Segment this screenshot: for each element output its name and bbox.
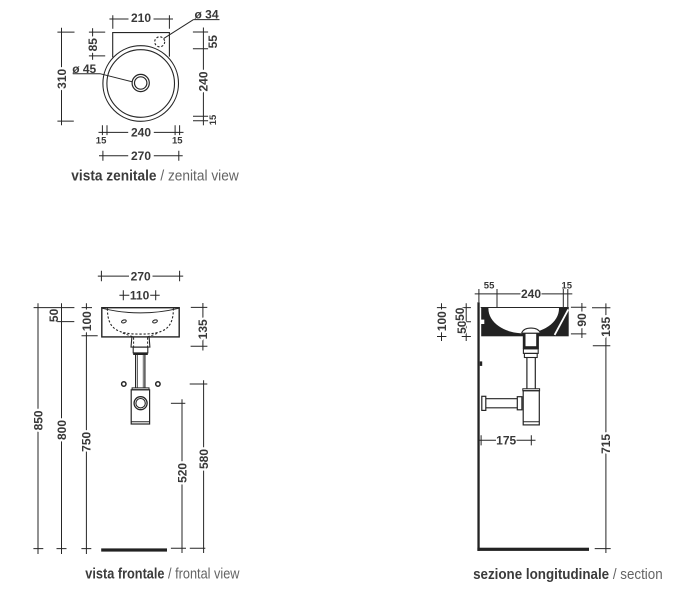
svg-text:50: 50 xyxy=(47,308,61,322)
svg-text:850: 850 xyxy=(31,410,45,430)
svg-text:sezione longitudinale / sectio: sezione longitudinale / section xyxy=(473,566,663,583)
svg-text:110: 110 xyxy=(130,289,150,303)
svg-text:15: 15 xyxy=(172,136,183,147)
svg-text:310: 310 xyxy=(55,68,69,88)
svg-text:85: 85 xyxy=(86,38,100,52)
svg-text:240: 240 xyxy=(521,287,541,301)
svg-text:210: 210 xyxy=(131,11,151,25)
svg-text:50: 50 xyxy=(455,320,469,334)
svg-text:240: 240 xyxy=(197,71,211,91)
svg-text:580: 580 xyxy=(197,449,211,469)
svg-text:135: 135 xyxy=(196,319,210,339)
svg-text:vista zenitale / zenital view: vista zenitale / zenital view xyxy=(71,168,239,185)
svg-text:175: 175 xyxy=(496,434,516,448)
svg-text:90: 90 xyxy=(575,313,589,327)
svg-text:15: 15 xyxy=(208,114,219,125)
svg-text:55: 55 xyxy=(206,35,220,49)
svg-text:135: 135 xyxy=(599,316,613,336)
svg-text:715: 715 xyxy=(599,434,613,454)
svg-text:240: 240 xyxy=(131,126,151,140)
svg-text:270: 270 xyxy=(131,149,151,163)
svg-text:55: 55 xyxy=(484,281,495,292)
svg-text:ø 34: ø 34 xyxy=(194,7,218,21)
svg-text:15: 15 xyxy=(562,281,573,292)
svg-text:ø 45: ø 45 xyxy=(72,62,96,76)
svg-text:520: 520 xyxy=(175,463,189,483)
svg-text:270: 270 xyxy=(131,269,151,283)
svg-text:100: 100 xyxy=(435,311,449,331)
svg-text:800: 800 xyxy=(55,420,69,440)
svg-text:vista frontale / frontal view: vista frontale / frontal view xyxy=(85,564,240,581)
svg-text:100: 100 xyxy=(80,311,94,331)
svg-text:15: 15 xyxy=(96,136,107,147)
svg-text:50: 50 xyxy=(453,307,467,321)
svg-text:750: 750 xyxy=(80,431,94,451)
